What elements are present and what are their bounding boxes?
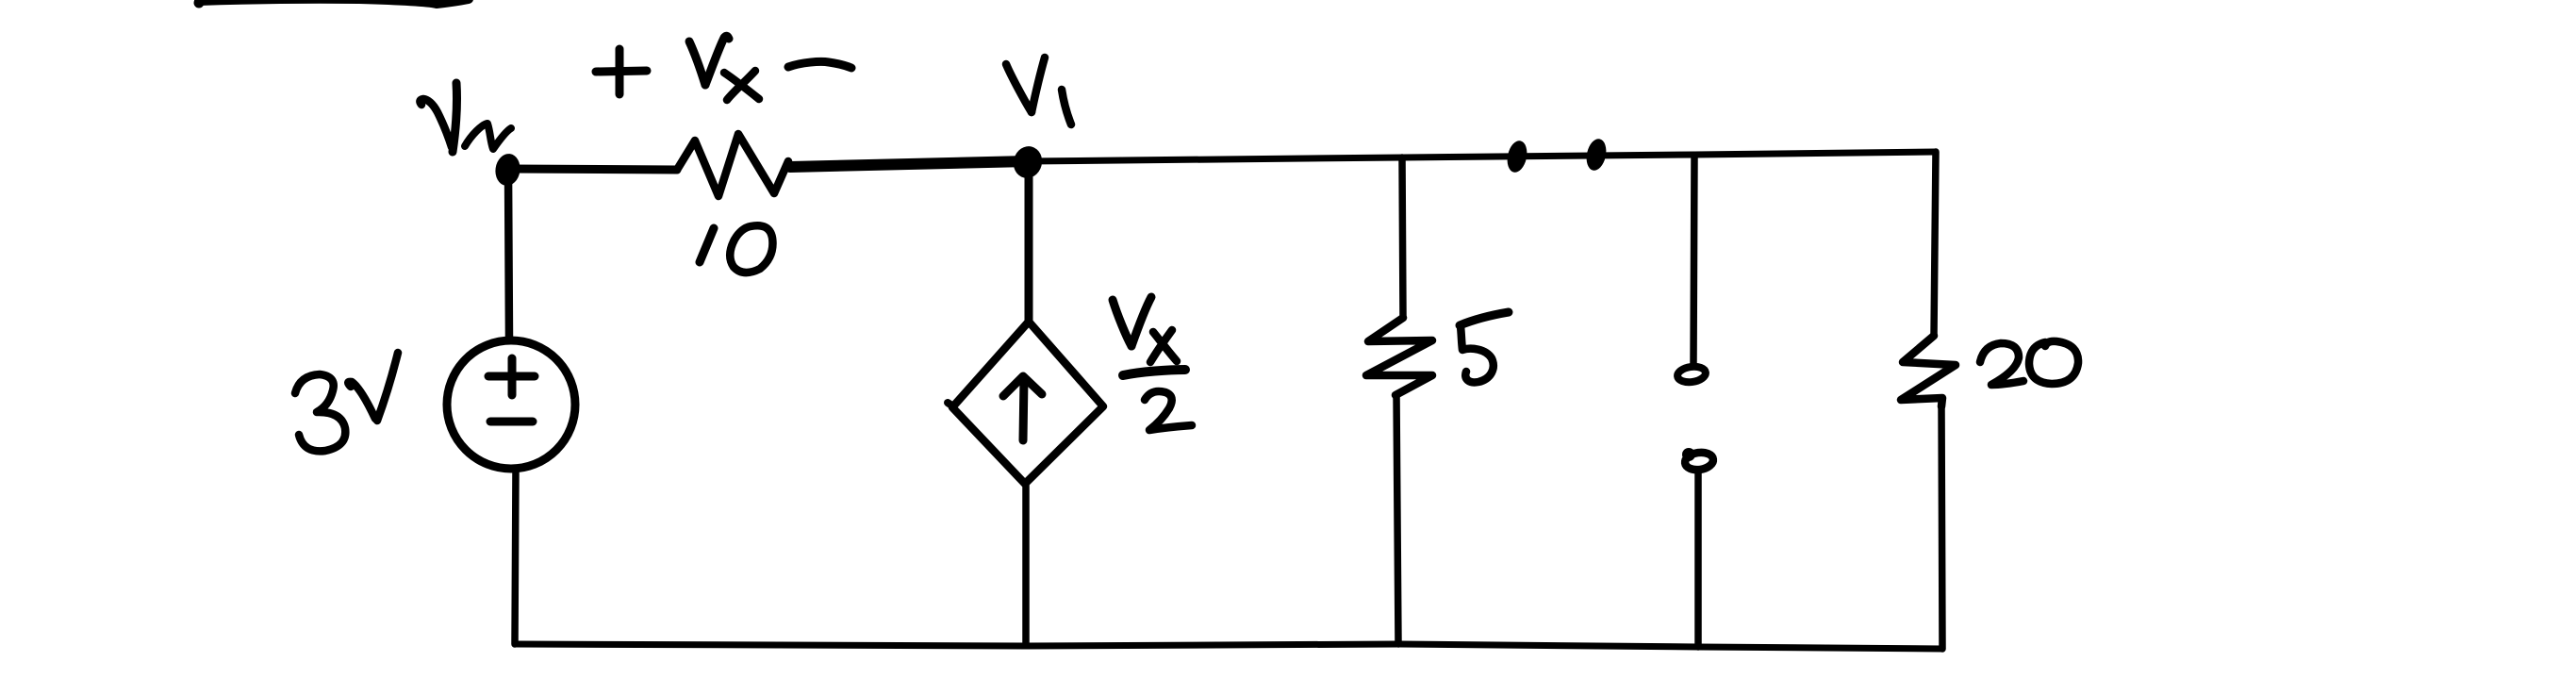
resistor R3 20ohm zigzag [1901,336,1956,406]
junction dot 1 on top wire [1505,139,1530,174]
wire: open branch upper segment [1693,157,1694,363]
minus sign inside source [490,418,533,426]
wire: top-right corner down to R20 [1934,152,1936,336]
node A dot [493,152,521,187]
wire: node A down to voltage source [508,172,509,338]
label Vx/2 [1113,297,1192,430]
label 10 [700,225,772,273]
stray pen stroke top-left [194,0,470,8]
wire: dependent source down to bottom wire [1022,484,1030,645]
open terminal lower circle [1682,448,1714,472]
wire: top-left horizontal (node A to resistor 10) [511,169,677,170]
label + (polarity of Vx) [596,49,647,94]
open terminal upper circle [1676,365,1707,384]
wire: voltage source down to bottom-left corner [515,469,516,644]
wire: R5 branch top [1402,157,1403,318]
label 3V [295,353,398,451]
resistor R2 5ohm zigzag [1366,318,1432,395]
label - (polarity of Vx) [788,61,851,68]
voltage source V1 3V circle [447,340,575,469]
wire: resistor 10 to node V1 (double-stroked, thicker) [790,161,1028,167]
label 5 [1460,312,1509,382]
wire: R5 branch bottom [1396,395,1398,644]
arrow inside dependent source [1003,376,1042,440]
dependent current source U1 diamond [952,322,1103,484]
plus sign inside source [488,358,535,395]
node A label handwritten V~ [420,83,511,152]
wire: R20 down to bottom-right corner [1941,404,1942,649]
label Vx [689,36,759,100]
resistor R1 10ohm zigzag [677,134,788,196]
bottom wire [515,644,1942,649]
wire: open branch lower segment [1694,472,1702,647]
wire: node V1 to R5 junction to open-branch junction to top-right corner [1028,152,1936,161]
label 20 [1980,341,2078,385]
wire: node V1 down to dependent source [1025,163,1033,322]
label V1 [1006,58,1071,124]
node V1 dot [1010,143,1046,182]
pen tick at diamond left vertex [948,403,953,406]
junction dot 2 on top wire [1584,137,1610,172]
